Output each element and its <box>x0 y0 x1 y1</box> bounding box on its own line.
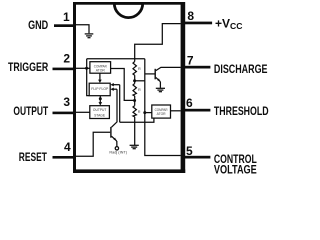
svg-text:ATOR: ATOR <box>96 68 105 72</box>
wire pin1 to internal ground <box>74 25 89 34</box>
pin 1 stub <box>54 24 76 27</box>
wire/arrow U1 output to flip-flop <box>99 73 101 80</box>
op-amp U2 (threshold comparator) box <box>152 105 171 118</box>
svg-text:6: 6 <box>186 96 193 110</box>
wire U1 reference input (to node B) <box>111 69 135 101</box>
pin 4 stub <box>53 156 77 159</box>
Q2 emitter to open terminal <box>112 136 117 141</box>
node A (2/3 Vcc tap) <box>133 79 136 82</box>
svg-text:RESET: RESET <box>19 150 48 164</box>
svg-text:1: 1 <box>63 10 70 24</box>
op-amp U1 (trigger comparator) box <box>90 62 111 73</box>
resistor R3 <box>133 106 136 117</box>
wire vertical from FF1 input 2 down to Q2 collector <box>112 89 118 127</box>
wire pin8 feed to divider <box>135 24 181 62</box>
svg-text:R: R <box>138 110 141 114</box>
svg-text:4: 4 <box>64 140 71 154</box>
wire pin4 to Q2 base <box>74 132 110 156</box>
pin 6 stub <box>181 109 210 112</box>
wire node C to comparator U2 <box>145 112 152 114</box>
pin 2 stub <box>53 68 77 71</box>
svg-text:R: R <box>138 88 141 92</box>
flip-flop FF1 box <box>89 83 110 96</box>
open terminal circle <box>115 147 118 150</box>
output stage U3 box <box>90 106 110 119</box>
IC body outline <box>73 2 185 173</box>
svg-text:Radj (INT): Radj (INT) <box>109 151 127 155</box>
pin 7 stub <box>181 66 210 69</box>
node C (rail to threshold comparator) <box>143 111 146 114</box>
svg-text:7: 7 <box>187 54 194 68</box>
wire top link (left rail to Vcc rail) <box>87 58 145 60</box>
pin 8 stub <box>181 22 212 25</box>
wire Q1 emitter to ground <box>159 82 161 88</box>
ground (Q1 emitter) <box>156 88 165 91</box>
wire output stage to pin 3 <box>74 111 90 113</box>
svg-text:R: R <box>138 67 141 71</box>
wire pin2 to comparator U1 <box>74 67 90 69</box>
svg-text:3: 3 <box>63 95 70 109</box>
svg-text:GND: GND <box>28 18 48 32</box>
svg-text:OUTPUT: OUTPUT <box>93 108 107 112</box>
svg-text:FLIP FLOP: FLIP FLOP <box>91 87 109 91</box>
wire/arrow threshold comparator output into FF1 <box>114 84 120 86</box>
transistor Q1 (discharge) base bar <box>155 69 156 80</box>
svg-text:DISCHARGE: DISCHARGE <box>214 62 268 76</box>
notch (pin-1 end indent of IC package) <box>114 3 142 17</box>
node trigger junction <box>85 67 88 70</box>
svg-text:5: 5 <box>186 144 193 158</box>
CONTROL VOLTAGE label <box>214 152 257 177</box>
transistor Q2 (reset) base bar <box>110 127 111 138</box>
wire U2 to pin 6 <box>171 110 181 112</box>
wire R1 to node A <box>134 75 136 83</box>
wire bus from FF1 to comparator U2 output <box>120 118 154 122</box>
U2 label COMPARATOR <box>155 108 168 116</box>
pin 5 stub <box>181 156 210 159</box>
pin 3 stub <box>53 112 77 115</box>
wire R2 to node B <box>134 96 136 106</box>
wire Q1 collector to pin 7 <box>156 67 181 70</box>
svg-text:TRIGGER: TRIGGER <box>8 60 48 74</box>
wire/arrow FF1 to output stage <box>99 96 101 103</box>
resistor R1 <box>133 62 136 76</box>
resistor R2 <box>133 83 136 96</box>
wire control-voltage rail (pin 5 up to top link) <box>145 59 181 156</box>
wire rail to Q1 base <box>145 73 155 75</box>
wire trigger rail left (down to flip-flop) <box>87 59 90 96</box>
wire/arrow reset signal into FF1 <box>114 88 118 90</box>
svg-text:THRESHOLD: THRESHOLD <box>214 104 269 118</box>
svg-text:VOLTAGE: VOLTAGE <box>214 163 257 177</box>
ground (divider bottom) <box>130 145 139 148</box>
U1 label COMPARATOR <box>94 65 107 73</box>
svg-text:2: 2 <box>63 51 70 65</box>
wire R3 to ground <box>134 117 136 145</box>
U3 label OUTPUT STAGE <box>93 108 107 117</box>
node B (1/3 Vcc tap) <box>133 99 136 102</box>
wire vertical from FF1 input 1 down to bus <box>119 85 121 123</box>
svg-text:ATOR: ATOR <box>157 112 166 116</box>
svg-text:8: 8 <box>187 9 194 23</box>
wire node A to Vcc rail <box>135 80 145 82</box>
svg-text:STAGE: STAGE <box>94 113 106 117</box>
svg-text:OUTPUT: OUTPUT <box>13 104 48 118</box>
Q1 emitter <box>156 77 161 81</box>
ground (pin 1 internal) <box>85 34 94 38</box>
